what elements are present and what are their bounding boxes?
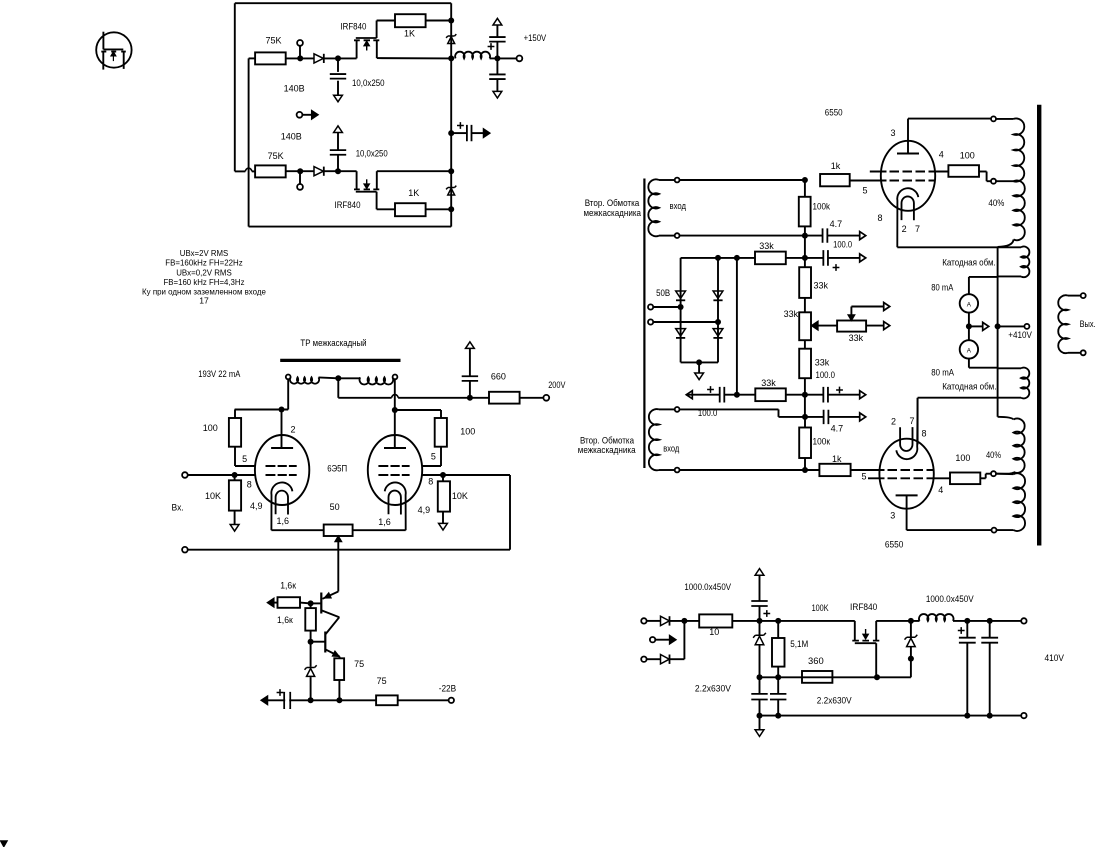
- svg-text:1,6: 1,6: [277, 516, 290, 526]
- node junction: [987, 618, 993, 624]
- wire 1K to rail (bottom): [426, 208, 452, 210]
- resistor 75 (vertical): [334, 658, 344, 680]
- transistor Q1 (PNP): [321, 592, 339, 618]
- resistor 10K (right): [438, 481, 450, 511]
- terminal output bottom: [1021, 713, 1026, 718]
- svg-text:50В: 50В: [656, 288, 670, 298]
- wire anode supply right: [395, 409, 441, 411]
- MOSFET IRF840 (bottom): [354, 171, 379, 209]
- svg-text:FB=160 kHz FH=4,3Hz: FB=160 kHz FH=4,3Hz: [164, 277, 245, 287]
- svg-text:33k: 33k: [849, 333, 864, 343]
- terminal AC in bottom: [641, 657, 646, 662]
- grid row1 upper 6550 (pin 4): [870, 171, 949, 173]
- resistor 5,1M: [777, 621, 779, 638]
- wire Q2 base: [311, 641, 326, 643]
- node junction: [232, 472, 238, 478]
- svg-text:3: 3: [891, 128, 896, 138]
- tube 6Э5П right envelope: [368, 435, 422, 505]
- svg-text:33k: 33k: [759, 241, 774, 251]
- wire -22V rail: [267, 699, 376, 701]
- wire diode to node (bottom): [324, 170, 357, 172]
- wire center tap segment: [338, 377, 360, 379]
- svg-text:4,9: 4,9: [418, 505, 431, 515]
- svg-text:100: 100: [203, 423, 218, 433]
- svg-text:1k: 1k: [831, 161, 841, 171]
- wire lower 75K feed from box edge: [235, 170, 246, 172]
- MOSFET IRF840 (psu): [852, 621, 879, 677]
- transistor Q2 (NPN): [325, 617, 339, 656]
- wire anode supply left: [235, 409, 289, 411]
- capacitor at 660 node: [469, 381, 471, 398]
- grid row2 lower 6550 (pin 4): [868, 477, 950, 479]
- svg-text:10: 10: [709, 627, 719, 637]
- wire diode to node: [670, 620, 699, 622]
- resistor 75 (horizontal): [376, 695, 398, 705]
- transformer core bar (interstage primary): [280, 359, 400, 362]
- node junction: [734, 255, 740, 261]
- svg-text:IRF840: IRF840: [340, 22, 366, 32]
- inductor (psu filter): [919, 614, 954, 621]
- wire Q2 emitter down: [339, 657, 341, 659]
- node junction: [966, 323, 972, 329]
- node junction: [308, 697, 314, 703]
- svg-text:1,6: 1,6: [378, 517, 391, 527]
- resistor 1K (bottom): [395, 203, 426, 216]
- grid row1 right tube: [378, 465, 409, 467]
- winding secondary lower: [649, 407, 680, 472]
- svg-text:Вх.: Вх.: [172, 503, 184, 513]
- anode lead lower 6550 (pin 3): [906, 495, 908, 530]
- wire upper winding top to 1k node: [680, 179, 805, 181]
- svg-text:FB=160kHz FH=22Hz: FB=160kHz FH=22Hz: [165, 258, 242, 268]
- wire 100 to 40% tap: [979, 171, 987, 173]
- wire inner left rail: [248, 58, 250, 226]
- zener diode (top): [446, 34, 456, 38]
- svg-text:2: 2: [891, 417, 896, 427]
- svg-text:410V: 410V: [1045, 653, 1065, 663]
- svg-text:33k: 33k: [814, 281, 829, 291]
- grid row1 lower 6550 (pin 5): [885, 469, 935, 471]
- wire 75K to diode (bottom): [286, 170, 314, 172]
- capacitor 4.7 (upper): [805, 235, 823, 237]
- resistor 75K (bottom): [255, 165, 286, 177]
- wire 660 to 200V terminal: [520, 397, 544, 399]
- capacitor output 2: [989, 621, 991, 638]
- svg-text:6550: 6550: [825, 107, 843, 117]
- cathode winding lower (loop): [998, 368, 1030, 399]
- MOSFET IRF840 (top): [354, 21, 379, 59]
- grid row2 right tube: [378, 474, 409, 476]
- capacitor 10,0x250 (bottom): [337, 133, 339, 151]
- wire 1k to tube pin 5: [850, 180, 887, 182]
- terminal with arrow (mid input): [297, 112, 303, 118]
- svg-text:1,6к: 1,6к: [280, 581, 296, 591]
- resistor chain 33k (c): [804, 340, 806, 349]
- pot wiper arrow: [335, 536, 342, 542]
- node junction: [494, 55, 500, 61]
- node junction: [775, 713, 781, 719]
- svg-text:100K: 100K: [812, 603, 829, 613]
- wire 360 to caps: [760, 676, 803, 678]
- wire feedback vertical: [509, 475, 511, 550]
- wire 100 to 40% tap lower: [980, 477, 985, 479]
- wire bottom rail (psu): [760, 715, 1022, 717]
- svg-text:IRF840: IRF840: [850, 602, 877, 612]
- primary winding bottom half: [996, 473, 1014, 476]
- wire to diode: [647, 620, 661, 622]
- wire MOSFET source out: [876, 620, 919, 622]
- svg-text:10K: 10K: [452, 491, 468, 501]
- wire drain to rail (bottom): [377, 170, 451, 172]
- wire anode to primary top: [908, 118, 991, 120]
- svg-text:5: 5: [242, 454, 247, 464]
- capacitor electrolytic on rail: [284, 692, 290, 709]
- wire hop over inner rail: [245, 168, 251, 171]
- wire feedback bottom: [188, 549, 510, 551]
- grid row2 left tube: [266, 474, 297, 476]
- svg-text:6Э5П: 6Э5П: [327, 464, 347, 474]
- wire node to MOSFET: [778, 620, 855, 622]
- terminal AC in top: [641, 618, 646, 623]
- inductor L1 (+150V filter): [455, 52, 490, 59]
- node junction: [297, 55, 303, 61]
- node junction: [802, 255, 808, 261]
- wire cathode right to pot: [353, 529, 406, 531]
- wire 75K to diode: [286, 57, 314, 59]
- wire mid vertical (bias minus): [736, 258, 738, 395]
- pot wiper arrow (33k b): [812, 322, 818, 330]
- cathode lower 6550: [896, 398, 917, 459]
- svg-text:200V: 200V: [548, 380, 565, 390]
- wire 75 to -22V terminal: [398, 699, 449, 701]
- capacitor output 1 (electrolytic): [966, 621, 968, 638]
- node junction: [696, 359, 702, 365]
- resistor 10: [699, 614, 732, 627]
- svg-text:2: 2: [902, 224, 907, 234]
- zener diode (bias) below node: [310, 642, 312, 667]
- node junction: [802, 467, 808, 473]
- wire to ammeter: [969, 276, 998, 278]
- terminal AC mid with arrow: [650, 637, 655, 642]
- capacitor 2.2x630V (left): [759, 677, 761, 693]
- svg-text:Втор. Обмотка: Втор. Обмотка: [585, 198, 640, 208]
- wire pot right lead arrow: [866, 325, 884, 327]
- wire top bias rail: [681, 257, 755, 259]
- svg-text:1,6к: 1,6к: [277, 615, 293, 625]
- svg-text:2.2x630V: 2.2x630V: [695, 684, 731, 694]
- node junction (mystery): [908, 656, 914, 662]
- svg-text:вход: вход: [663, 444, 680, 454]
- svg-text:8: 8: [922, 429, 927, 439]
- winding left half (primary): [286, 375, 291, 380]
- winding right half (primary): [360, 377, 394, 384]
- svg-text:660: 660: [491, 372, 506, 382]
- zener diode (bottom): [446, 186, 456, 190]
- tube 6Э5П left envelope: [255, 435, 309, 505]
- arrow left end of rail: [261, 696, 267, 704]
- node junction: [448, 168, 454, 174]
- ammeter A1 80mA: [960, 294, 978, 312]
- diode rectifier top: [661, 616, 670, 625]
- resistor 100k (upper): [799, 197, 811, 227]
- capacitor 1000.0x450V (first): [759, 606, 761, 621]
- wire to diode 2: [647, 658, 661, 660]
- svg-text:80 mA: 80 mA: [931, 283, 953, 293]
- diode rectifier bottom: [661, 655, 670, 664]
- capacitor (bottom of +150V node): [496, 58, 498, 74]
- arrow down terminal: [493, 91, 502, 98]
- svg-text:Втор. Обмотка: Втор. Обмотка: [580, 436, 634, 446]
- wire lower winding bottom to 1k: [680, 469, 820, 471]
- diode bridge left column: [680, 258, 682, 363]
- potentiometer 33k (b): [804, 298, 806, 312]
- wire zener corner to gate node: [877, 676, 911, 678]
- svg-text:50: 50: [330, 502, 340, 512]
- resistor 660: [489, 392, 520, 404]
- wire 10K to ground: [234, 511, 236, 525]
- svg-text:75K: 75K: [266, 36, 282, 46]
- resistor 33k (upper horizontal): [755, 252, 786, 265]
- resistor chain 33k (a): [799, 267, 811, 298]
- wire 75 to rail: [338, 680, 340, 700]
- svg-text:8: 8: [428, 477, 433, 487]
- cathode right tube: [385, 482, 406, 530]
- svg-text:вход: вход: [670, 201, 687, 211]
- svg-text:193V 22 mA: 193V 22 mA: [198, 369, 240, 379]
- svg-text:Катодная обм.: Катодная обм.: [942, 382, 996, 392]
- potentiometer 50: [324, 525, 353, 537]
- node junction left anode: [279, 407, 285, 413]
- node junction center tap: [335, 375, 341, 381]
- svg-text:10,0x250: 10,0x250: [352, 78, 385, 88]
- svg-text:1000.0x450V: 1000.0x450V: [684, 582, 731, 592]
- svg-text:17: 17: [199, 296, 209, 306]
- wire cathode lower tube: [918, 397, 1021, 399]
- resistor 1k (upper): [820, 174, 850, 186]
- resistor 1,6k (horizontal): [278, 597, 301, 608]
- svg-text:IRF840: IRF840: [335, 200, 361, 210]
- svg-text:100.0: 100.0: [816, 370, 836, 380]
- annotation text block: [142, 248, 266, 306]
- svg-text:140B: 140B: [281, 132, 302, 142]
- node junction: [308, 639, 314, 645]
- svg-text:Вых.: Вых.: [1080, 319, 1096, 329]
- wire ammeter2 to rail: [968, 359, 970, 368]
- svg-text:Катодная обм.: Катодная обм.: [942, 258, 996, 268]
- primary winding lower half (upper tube): [1014, 180, 1025, 240]
- wire diode2 up to node: [670, 658, 684, 660]
- svg-text:33k: 33k: [761, 378, 776, 388]
- node junction: [802, 414, 808, 420]
- zener VD (psu): [753, 633, 766, 638]
- node junction: [908, 618, 914, 624]
- node junction: [987, 713, 993, 719]
- terminal bias AC2: [648, 319, 653, 324]
- node junction: [775, 674, 781, 680]
- svg-text:80 mA: 80 mA: [931, 368, 954, 378]
- capacitor 100.0 (right lower): [805, 394, 823, 396]
- node junction: [802, 392, 808, 398]
- capacitor 4.7 (lower): [805, 416, 824, 418]
- wire to ground: [698, 362, 700, 373]
- cathode winding upper (loop): [998, 247, 1030, 278]
- svg-text:UBx=0,2V RMS: UBx=0,2V RMS: [176, 267, 232, 277]
- transformer core line (interstage secondary): [643, 179, 645, 469]
- wire rail to ground: [759, 716, 761, 730]
- wire center tap down: [337, 378, 339, 398]
- capacitor 100.0 (upper): [805, 257, 823, 259]
- svg-text:1k: 1k: [832, 454, 842, 464]
- wire primary bottom to anode: [907, 529, 992, 531]
- arrow up terminal: [466, 342, 475, 349]
- node junction: [775, 618, 781, 624]
- resistor 100 (lower screen): [950, 473, 980, 485]
- svg-text:40%: 40%: [988, 198, 1004, 208]
- svg-text:100: 100: [460, 427, 475, 437]
- node junction +410V: [995, 323, 1001, 329]
- node junction: [734, 392, 740, 398]
- wire source side to rail: [377, 57, 451, 59]
- resistor 100 (right screen): [440, 410, 442, 418]
- svg-text:75: 75: [354, 659, 364, 669]
- svg-text:1K: 1K: [408, 188, 419, 198]
- node junction: [335, 55, 341, 61]
- node junction: [802, 177, 808, 183]
- node junction: [964, 618, 970, 624]
- anode lead left tube (pin 2): [281, 410, 283, 449]
- wire gate to 1K (bottom): [377, 208, 395, 210]
- ground: [695, 373, 704, 380]
- wire hop over right anode drop: [392, 395, 398, 398]
- node junction: [448, 206, 454, 212]
- wire +410 rail vertical: [997, 247, 999, 398]
- terminal (top, open circle): [297, 40, 303, 46]
- svg-text:8: 8: [247, 480, 252, 490]
- terminal +150V: [517, 56, 523, 62]
- svg-text:6550: 6550: [885, 540, 904, 550]
- wire to +410V terminal: [998, 325, 1025, 327]
- svg-text:4.7: 4.7: [831, 424, 844, 434]
- terminal 40% tap upper: [996, 180, 1014, 182]
- svg-text:+150V: +150V: [524, 33, 547, 43]
- resistor 100k (lower): [804, 417, 806, 428]
- wire+arrow left of 1,6k: [273, 602, 278, 604]
- output secondary winding: [1058, 293, 1085, 355]
- wire upper winding bottom rail: [680, 235, 805, 237]
- node junction: [757, 618, 763, 624]
- wire center tap to 660: [338, 397, 391, 399]
- node junction: [715, 319, 721, 325]
- node junction between rails: [804, 395, 806, 417]
- anode lead right tube: [394, 410, 396, 448]
- arrow up terminal: [755, 569, 764, 576]
- svg-text:4: 4: [938, 485, 943, 495]
- svg-text:5: 5: [862, 472, 867, 482]
- node junction: [448, 18, 454, 24]
- wire gate to 1K: [377, 20, 395, 22]
- ground: [334, 95, 343, 102]
- ground (up arrow): [334, 126, 343, 133]
- node junction right anode: [392, 407, 398, 413]
- page mark (bottom-left): [1, 841, 8, 847]
- svg-text:1K: 1K: [404, 29, 415, 39]
- svg-text:10,0x250: 10,0x250: [356, 149, 388, 159]
- node junction: [964, 713, 970, 719]
- tube 6550 lower envelope: [879, 439, 933, 509]
- capacitor 100.0 (left lower): [686, 391, 692, 399]
- terminal bias AC1: [648, 304, 653, 309]
- svg-text:+410V: +410V: [1008, 330, 1032, 340]
- svg-text:межкаскадника: межкаскадника: [578, 445, 636, 455]
- svg-text:3: 3: [890, 511, 895, 521]
- svg-text:10K: 10K: [205, 491, 221, 501]
- svg-text:2.2x630V: 2.2x630V: [817, 696, 852, 706]
- resistor 33k (lower horizontal): [737, 394, 755, 396]
- wire pot wiper down to Q1: [337, 542, 339, 592]
- svg-text:UBx=2V RMS: UBx=2V RMS: [180, 248, 229, 258]
- svg-text:100: 100: [955, 453, 970, 463]
- wire 1,6k to base node: [300, 602, 311, 605]
- capacitor (mid, to arrow): [457, 122, 464, 129]
- resistor 10K (left): [234, 475, 236, 480]
- svg-text:100: 100: [960, 151, 975, 161]
- diode VD2: [713, 291, 723, 298]
- terminal Bx input: [182, 472, 188, 478]
- ammeter A2 80mA: [960, 340, 978, 358]
- wire diode to node: [324, 57, 357, 59]
- node junction: [336, 697, 342, 703]
- node junction: [715, 255, 721, 261]
- pot wiper from top: [850, 307, 852, 321]
- wire box left edge upper: [234, 3, 236, 171]
- svg-text:7: 7: [910, 416, 915, 426]
- diode D1: [314, 54, 323, 63]
- svg-text:33k: 33k: [784, 309, 799, 319]
- anode lead upper 6550 (pin 3): [907, 119, 909, 154]
- svg-text:75K: 75K: [268, 151, 284, 161]
- node junction (cap 660): [467, 395, 473, 401]
- capacitor 10,0x250 (top): [337, 58, 339, 72]
- grid row2 upper 6550 (pin 5): [887, 180, 936, 182]
- potentiometer 33k (horizontal): [837, 321, 866, 332]
- node junction: [681, 618, 687, 624]
- wire AC2 to bridge: [653, 321, 718, 323]
- zener (psu 2): [905, 635, 918, 640]
- wire box bottom edge: [249, 226, 452, 228]
- ground: [230, 525, 239, 532]
- wire cathode upper to winding top: [897, 246, 1021, 248]
- svg-text:5: 5: [431, 452, 436, 462]
- svg-text:-22В: -22В: [439, 684, 457, 694]
- capacitor (top of +150V node): [496, 42, 498, 59]
- cathode left tube: [271, 482, 292, 530]
- svg-text:межкаскадника: межкаскадника: [584, 208, 642, 218]
- node junction: [440, 472, 446, 478]
- cathode upper 6550: [897, 188, 918, 247]
- node junction: [297, 168, 303, 174]
- wire 75K top feed: [249, 57, 256, 59]
- svg-text:7: 7: [915, 224, 920, 234]
- svg-text:100к: 100к: [813, 437, 831, 447]
- wire 1k to lower tube pin 5: [851, 469, 885, 471]
- diode D2: [314, 167, 323, 176]
- terminal bottom input: [182, 547, 188, 553]
- output transformer core bar: [1037, 105, 1041, 546]
- svg-text:ТР межкаскадный: ТР межкаскадный: [300, 338, 366, 348]
- node junction: [802, 233, 808, 239]
- svg-text:140B: 140B: [284, 84, 305, 94]
- svg-text:4: 4: [939, 150, 944, 160]
